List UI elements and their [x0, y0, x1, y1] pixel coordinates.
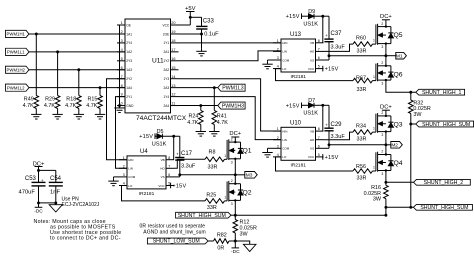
svg-text:1Y3: 1Y3 [164, 77, 170, 81]
power DC+ bulk caps [33, 161, 56, 182]
svg-text:D7: D7 [308, 98, 315, 104]
wire D7 cathode to U10 VB node [314, 104, 329, 131]
svg-text:U11: U11 [152, 58, 164, 65]
resistor R15 4.7K [86, 88, 102, 112]
svg-text:IR2181: IR2181 [290, 74, 306, 80]
svg-text:3W: 3W [373, 197, 382, 203]
svg-text:1: 1 [277, 127, 279, 131]
svg-text:SHUNT_HIGH_2: SHUNT_HIGH_2 [424, 180, 464, 186]
wire 2Y1 to U4 LIN [116, 97, 128, 169]
svg-text:13: 13 [171, 84, 175, 88]
svg-text:ECJ-2VC2A102J: ECJ-2VC2A102J [62, 202, 100, 208]
svg-text:3: 3 [121, 39, 123, 43]
svg-text:HIN: HIN [128, 158, 133, 162]
power +15V D5 anode [139, 133, 157, 140]
net label PWM1H1 [6, 30, 30, 37]
wire PWM1L2 to U11 pin 8 [29, 86, 125, 89]
capacitor C29 3.3uF [324, 105, 345, 145]
svg-text:GND: GND [126, 104, 134, 108]
power +15V U10 VCC [323, 154, 339, 161]
svg-text:PWM1L3: PWM1L3 [222, 86, 243, 92]
svg-text:1nF: 1nF [50, 190, 60, 196]
svg-text:HIN: HIN [282, 41, 287, 45]
svg-text:4.7K: 4.7K [23, 103, 34, 109]
svg-text:C53: C53 [25, 176, 37, 182]
wire 2Y2 to U4 HIN [107, 79, 128, 160]
svg-text:R29: R29 [45, 96, 55, 102]
svg-text:1: 1 [373, 75, 375, 79]
svg-text:VCC: VCC [308, 155, 315, 159]
svg-text:PWM1H1: PWM1H1 [7, 32, 26, 37]
svg-text:M3: M3 [246, 173, 253, 179]
svg-text:5: 5 [318, 65, 320, 69]
node M1 [386, 52, 407, 59]
svg-text:SHUNT_HIGH_SUM: SHUNT_HIGH_SUM [178, 213, 226, 219]
gate driver U13 IR2181 [273, 32, 324, 80]
svg-text:12: 12 [171, 93, 175, 97]
net label PWM1L3 [218, 84, 245, 91]
svg-text:3: 3 [231, 160, 233, 164]
wire PWM1H2 to U11 pin 6 [29, 68, 125, 71]
svg-text:20: 20 [171, 21, 175, 25]
note 0R resistor [140, 224, 206, 236]
svg-text:US1K: US1K [303, 21, 318, 27]
svg-text:8: 8 [121, 84, 123, 88]
svg-text:LO: LO [282, 155, 287, 159]
svg-text:18: 18 [171, 39, 175, 43]
svg-text:SHUNT_HIGH_1: SHUNT_HIGH_1 [422, 90, 462, 96]
svg-text:IR2181: IR2181 [139, 191, 155, 197]
svg-text:33R: 33R [357, 49, 367, 55]
svg-text:1: 1 [121, 21, 123, 25]
net label SHUNT_HIGH_SUM [176, 212, 236, 219]
wire 1Y3 to U10 HIN [179, 79, 282, 131]
svg-text:1: 1 [373, 39, 375, 43]
svg-text:R60: R60 [356, 35, 366, 41]
svg-text:1Y2: 1Y2 [164, 59, 170, 63]
svg-text:-DC: -DC [231, 249, 240, 255]
chassis arrow [49, 205, 62, 212]
svg-text:7: 7 [318, 136, 320, 140]
wire U11 VCC pin20 to +5V and C33 [179, 16, 202, 27]
svg-text:to connect to DC+ and DC-: to connect to DC+ and DC- [50, 235, 121, 241]
svg-text:LIN: LIN [282, 50, 287, 54]
wire U10 COM to ground [268, 148, 274, 150]
node M2 [386, 142, 402, 149]
svg-text:3: 3 [277, 144, 279, 148]
svg-text:1A1: 1A1 [126, 32, 132, 36]
power +15V D9 anode [286, 13, 309, 20]
svg-text:R24: R24 [189, 114, 199, 120]
wire shunt-high-sum bus [409, 114, 415, 209]
svg-text:6: 6 [318, 56, 320, 60]
svg-text:VB: VB [161, 158, 165, 162]
svg-text:6: 6 [168, 173, 170, 177]
wire U13 COM to ground [268, 60, 274, 62]
svg-text:3: 3 [123, 173, 125, 177]
svg-text:1A4: 1A4 [126, 86, 132, 90]
resistor R60 33R [353, 35, 376, 54]
svg-text:Q2: Q2 [243, 189, 252, 196]
power +5V [185, 6, 196, 25]
svg-text:M2: M2 [391, 143, 398, 149]
svg-text:7: 7 [168, 164, 170, 168]
wire D5 cathode to U4 VB node [162, 135, 179, 160]
svg-text:VCC: VCC [308, 67, 315, 71]
svg-text:+5V: +5V [185, 6, 196, 12]
svg-text:+15V: +15V [286, 103, 300, 109]
svg-text:DC+: DC+ [229, 131, 241, 137]
svg-text:2: 2 [381, 111, 383, 115]
wire sum rail to R16 [235, 214, 386, 216]
svg-text:HO: HO [310, 138, 315, 142]
svg-text:VS: VS [310, 58, 314, 62]
svg-text:2: 2 [277, 136, 279, 140]
svg-text:HO: HO [160, 167, 165, 171]
svg-text:+15V: +15V [286, 14, 300, 20]
ground [114, 106, 124, 113]
wire Q3 source to Q4 drain (M2) [385, 132, 387, 155]
svg-text:1Y1: 1Y1 [164, 41, 170, 45]
wire PWM1L1 to U11 pin 4 [29, 50, 125, 53]
svg-text:+: + [325, 122, 328, 127]
svg-text:R25: R25 [206, 192, 216, 198]
svg-text:4.7K: 4.7K [44, 103, 55, 109]
svg-text:VS: VS [161, 175, 165, 179]
net label PWM1H3 [218, 102, 245, 109]
wire U4 LO to R25 [122, 186, 206, 201]
capacitor C33 0.1uF [196, 19, 219, 38]
svg-text:1: 1 [373, 127, 375, 131]
svg-text:-DC: -DC [34, 209, 43, 215]
wire U10 VS to node M2 [324, 143, 388, 148]
transistor Q5 [373, 22, 403, 49]
svg-text:2: 2 [231, 179, 233, 183]
svg-text:2: 2 [381, 22, 383, 26]
svg-text:2Y4: 2Y4 [126, 41, 132, 45]
power +15V D7 anode [286, 103, 309, 110]
svg-text:HIN: HIN [282, 129, 287, 133]
gate driver U4 IR2181 [119, 149, 174, 197]
wire Q5 source to Q6 drain (M1) [385, 44, 387, 66]
svg-text:PWM1L2: PWM1L2 [7, 85, 25, 90]
wire U10 LO to R56 [276, 157, 354, 171]
svg-text:4.7K: 4.7K [86, 103, 97, 109]
resistor R49 4.7K [23, 34, 39, 112]
net label SHUNT_HIGH_SUM [413, 204, 472, 211]
wire Q4 source to SHUNT_HIGH_2 [384, 171, 413, 184]
resistor R18 4.7K [65, 70, 81, 112]
svg-text:US1K: US1K [303, 111, 318, 117]
net label SHUNT_LOW_SUM [147, 238, 213, 245]
wire U13 HO to R60 [324, 44, 354, 51]
transistor Q4 [373, 150, 403, 176]
wire U4 VS to node M3 [174, 173, 237, 177]
power DC+ phase2 [380, 104, 392, 116]
capacitor C54 1nF [49, 176, 63, 205]
power +15V U4 VCC [171, 183, 187, 190]
svg-text:DC+: DC+ [33, 161, 45, 167]
svg-text:COM: COM [282, 147, 290, 151]
wire PWM1H1 to U11 pin 2 [29, 33, 125, 36]
svg-text:1Y4: 1Y4 [164, 95, 170, 99]
net label SHUNT_HIGH_2 [414, 179, 471, 186]
svg-text:2Y1: 2Y1 [126, 95, 132, 99]
wire cap bottoms rail [37, 201, 57, 204]
svg-text:33R: 33R [357, 87, 367, 93]
svg-text:C37: C37 [331, 31, 343, 37]
svg-text:PWM1H3: PWM1H3 [222, 103, 244, 109]
wire Q6 source to SHUNT_HIGH_1 [386, 80, 416, 94]
gate driver U10 IR2181 [273, 120, 324, 168]
net label PWM1L1 [6, 48, 30, 55]
power +15V U13 VCC [323, 66, 339, 73]
svg-text:+: + [176, 152, 179, 157]
wire U13 VS to node M1 [324, 54, 388, 60]
power DC+ phase3 [229, 131, 241, 142]
svg-text:470uF: 470uF [19, 190, 36, 196]
svg-text:COM: COM [282, 58, 290, 62]
svg-text:U13: U13 [290, 32, 302, 38]
svg-text:7: 7 [318, 48, 320, 52]
resistor R34 33R [353, 123, 376, 142]
svg-text:VB: VB [310, 129, 314, 133]
power DC+ phase1 [380, 14, 392, 27]
transistor Q6 [373, 61, 403, 86]
svg-text:VCC: VCC [162, 23, 169, 27]
svg-text:1: 1 [373, 166, 375, 170]
diode D9 US1K [303, 9, 318, 27]
svg-text:8: 8 [318, 39, 320, 43]
svg-text:3.3uF: 3.3uF [331, 45, 346, 51]
svg-text:AGND and shunt_low_sum: AGND and shunt_low_sum [143, 230, 206, 236]
svg-text:IR2181: IR2181 [290, 162, 306, 168]
svg-text:15: 15 [171, 66, 175, 70]
svg-text:C33: C33 [203, 19, 215, 25]
wire R16 node to sum rail [384, 207, 387, 216]
svg-text:M1: M1 [396, 53, 403, 59]
svg-text:2: 2 [381, 150, 383, 154]
svg-text:1A3: 1A3 [126, 68, 132, 72]
svg-text:DC+: DC+ [380, 104, 392, 110]
svg-text:Q1: Q1 [243, 148, 252, 155]
wire R16 bottom to SHUNT_HIGH_SUM [386, 206, 414, 208]
svg-text:LIN: LIN [282, 138, 287, 142]
svg-text:LO: LO [128, 184, 133, 188]
svg-text:17: 17 [171, 48, 175, 52]
svg-text:3W: 3W [413, 112, 422, 118]
diode D5 US1K [152, 129, 167, 147]
svg-text:+15V: +15V [172, 184, 186, 190]
svg-text:33R: 33R [207, 205, 217, 211]
svg-text:74ACT244MTCX: 74ACT244MTCX [136, 115, 187, 122]
svg-text:1: 1 [277, 39, 279, 43]
resistor R25 33R [205, 192, 227, 211]
svg-text:LO: LO [282, 67, 287, 71]
transistor Q2 [224, 179, 252, 206]
wire U10 HO to R34 [324, 132, 354, 140]
svg-text:VCC: VCC [158, 184, 165, 188]
svg-text:2A4: 2A4 [164, 104, 170, 108]
transistor Q3 [373, 111, 403, 137]
svg-text:16: 16 [171, 57, 175, 61]
svg-text:+: + [41, 178, 44, 183]
node M3 [235, 172, 257, 179]
svg-text:3: 3 [381, 82, 383, 86]
svg-text:3: 3 [381, 133, 383, 137]
svg-text:14: 14 [171, 75, 175, 79]
svg-text:+15V: +15V [139, 134, 153, 140]
svg-text:4.7K: 4.7K [187, 120, 198, 126]
svg-text:SHUNT_LOW_SUM: SHUNT_LOW_SUM [153, 239, 200, 245]
svg-text:Q3: Q3 [394, 122, 403, 129]
svg-text:2: 2 [231, 137, 233, 141]
wire U11 pin11 2A4 net PWM1H3 [179, 104, 218, 107]
transistor Q1 [224, 137, 252, 164]
svg-text:R56: R56 [356, 164, 366, 170]
svg-text:19: 19 [171, 30, 175, 34]
wire 1Y1 to U13 HIN [179, 42, 282, 44]
svg-text:C29: C29 [331, 122, 343, 128]
diode D7 US1K [303, 98, 318, 116]
resistor R82 0R [214, 232, 236, 251]
svg-text:3: 3 [381, 172, 383, 176]
wire 1Y4 to U10 LIN [179, 97, 282, 140]
ground [262, 150, 272, 157]
svg-text:PWM1L1: PWM1L1 [7, 49, 25, 54]
resistor R32 0.025R 3W shunt [409, 92, 431, 118]
svg-text:SHUNT_HIGH_SUM: SHUNT_HIGH_SUM [420, 205, 468, 211]
svg-text:2: 2 [123, 164, 125, 168]
svg-text:US1K: US1K [152, 141, 167, 147]
svg-text:R82: R82 [217, 232, 227, 238]
ground [74, 112, 84, 119]
svg-text:LIN: LIN [128, 167, 133, 171]
svg-text:Q4: Q4 [394, 160, 403, 167]
svg-text:4.7K: 4.7K [217, 120, 228, 126]
svg-text:0R: 0R [217, 246, 224, 252]
svg-text:33R: 33R [357, 176, 367, 182]
svg-text:R41: R41 [217, 114, 227, 120]
svg-text:33R: 33R [208, 165, 218, 171]
svg-text:2A2: 2A2 [164, 68, 170, 72]
resistor R67 33R [353, 75, 376, 93]
chassis arrow [235, 241, 256, 252]
svg-text:2Y3: 2Y3 [126, 59, 132, 63]
svg-text:33R: 33R [357, 137, 367, 143]
net label PWM1H2 [6, 66, 30, 73]
net label PWM1L2 [6, 84, 30, 91]
ground [95, 112, 105, 119]
ground [52, 112, 62, 119]
svg-text:PWM1H2: PWM1H2 [7, 67, 26, 72]
ground [108, 179, 118, 186]
resistor R16 0.025R 3W shunt [364, 182, 389, 208]
wire U11 pin1 OE to GND pin10 [118, 25, 121, 107]
wire Q2 source to R12 node [234, 200, 237, 216]
svg-text:1: 1 [224, 154, 226, 158]
svg-text:2Y2: 2Y2 [126, 77, 132, 81]
wire U4 HO to R8 [174, 159, 205, 168]
notes [34, 219, 122, 242]
note use PN [62, 196, 100, 208]
svg-text:2: 2 [277, 48, 279, 52]
svg-text:R8: R8 [209, 149, 216, 155]
svg-text:6: 6 [318, 144, 320, 148]
svg-text:SHUNT_HIGH_SUM: SHUNT_HIGH_SUM [422, 122, 470, 128]
svg-text:2A3: 2A3 [164, 86, 170, 90]
svg-text:8: 8 [318, 127, 320, 131]
wire U11 pin13 2A3 net PWM1L3 [179, 86, 218, 89]
svg-text:R67: R67 [356, 75, 366, 81]
svg-text:1: 1 [123, 156, 125, 160]
power -DC [231, 241, 240, 255]
svg-text:3: 3 [381, 45, 383, 49]
wire U13 LO to R67 [276, 69, 354, 81]
resistor R56 33R [353, 164, 376, 181]
ground [196, 49, 206, 56]
wire D9 cathode to U13 VB node [314, 15, 329, 43]
svg-text:D9: D9 [308, 9, 315, 15]
ground [196, 129, 206, 136]
svg-text:3.3uF: 3.3uF [181, 164, 196, 170]
svg-text:0.1uF: 0.1uF [204, 31, 219, 37]
buffer U11 74ACT244MTCX [117, 19, 187, 122]
wire 1Y2 to U13 LIN [179, 51, 282, 61]
wire U4 COM to ground [114, 177, 120, 179]
svg-text:Q5: Q5 [394, 32, 403, 39]
svg-text:C17: C17 [181, 151, 193, 157]
wire U11 pin19 2OE to C33 ground [179, 29, 203, 49]
net label SHUNT_HIGH_SUM [416, 121, 474, 128]
resistor R12 0.025R 3W shunt [233, 215, 257, 242]
ground [209, 129, 219, 136]
svg-text:U10: U10 [290, 120, 302, 126]
svg-text:1A2: 1A2 [126, 50, 132, 54]
svg-text:5: 5 [168, 182, 170, 186]
power -DC [34, 203, 43, 215]
svg-text:8: 8 [168, 156, 170, 160]
svg-text:R34: R34 [356, 123, 366, 129]
ground [262, 62, 272, 69]
capacitor C53 470uF [19, 176, 46, 203]
svg-text:R18: R18 [66, 96, 76, 102]
svg-text:OE: OE [126, 23, 131, 27]
ground [31, 112, 41, 119]
capacitor C37 3.3uF [324, 16, 345, 56]
svg-text:5: 5 [318, 153, 320, 157]
svg-text:VB: VB [310, 41, 314, 45]
svg-text:11: 11 [171, 102, 175, 106]
svg-text:U4: U4 [140, 149, 148, 155]
svg-text:4: 4 [121, 48, 123, 52]
svg-text:2OE: 2OE [163, 32, 169, 36]
svg-text:COM: COM [128, 175, 136, 179]
svg-text:R15: R15 [88, 96, 98, 102]
svg-text:3W: 3W [240, 231, 249, 237]
resistor R24 4.7K [187, 106, 203, 130]
svg-text:D5: D5 [157, 129, 164, 135]
resistor R29 4.7K [44, 52, 60, 112]
svg-text:+15V: +15V [325, 155, 339, 161]
svg-text:5: 5 [121, 57, 123, 61]
svg-text:3: 3 [277, 56, 279, 60]
svg-text:2A1: 2A1 [164, 50, 170, 54]
svg-text:2: 2 [121, 30, 123, 34]
svg-text:C54: C54 [50, 176, 62, 182]
resistor R8 33R [205, 149, 227, 170]
wire Q1 source to Q2 drain (M3) [234, 159, 236, 184]
